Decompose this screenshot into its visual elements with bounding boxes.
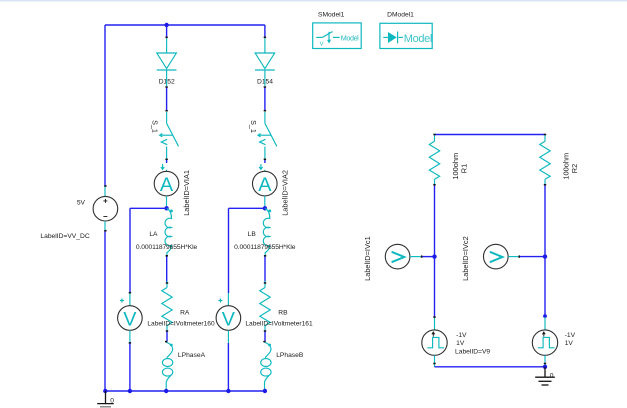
svg-text:-1V: -1V <box>456 332 467 339</box>
svg-text:1V: 1V <box>456 340 465 347</box>
svg-text:LB: LB <box>248 231 257 238</box>
svg-text:Model: Model <box>404 33 432 45</box>
svg-text:S_1: S_1 <box>249 120 258 133</box>
svg-text:S_1: S_1 <box>151 120 160 133</box>
svg-text:0.00011879655H*Kle: 0.00011879655H*Kle <box>234 244 296 251</box>
svg-text:Model: Model <box>341 33 359 42</box>
svg-text:RA: RA <box>180 310 190 317</box>
svg-text:LabelID=IVoltmeter160: LabelID=IVoltmeter160 <box>147 321 215 328</box>
svg-text:1V: 1V <box>565 340 574 347</box>
svg-text:LabelID=IVc1: LabelID=IVc1 <box>363 236 372 281</box>
svg-text:0.00011879655H*Kle: 0.00011879655H*Kle <box>136 244 198 251</box>
svg-text:LabelID=V9: LabelID=V9 <box>455 348 490 355</box>
svg-text:R1: R1 <box>459 164 468 173</box>
svg-text:V: V <box>320 41 324 47</box>
svg-text:RB: RB <box>278 310 288 317</box>
svg-text:LabelID=VIA2: LabelID=VIA2 <box>281 170 290 216</box>
svg-text:LA: LA <box>149 231 158 238</box>
svg-text:LabelID=IVoltmeter161: LabelID=IVoltmeter161 <box>245 321 313 328</box>
svg-text:LabelID=IVc2: LabelID=IVc2 <box>461 236 470 281</box>
svg-text:R2: R2 <box>570 164 579 173</box>
svg-text:5V: 5V <box>77 199 86 206</box>
svg-text:LPhaseB: LPhaseB <box>276 352 304 359</box>
svg-text:0: 0 <box>110 397 114 404</box>
svg-text:0: 0 <box>550 373 554 380</box>
svg-text:LabelID=VIA1: LabelID=VIA1 <box>182 170 191 216</box>
svg-text:LabelID=VV_DC: LabelID=VV_DC <box>40 233 89 240</box>
svg-text:-1V: -1V <box>565 332 576 339</box>
svg-text:DModel1: DModel1 <box>387 11 414 18</box>
svg-text:SModel1: SModel1 <box>318 11 345 18</box>
svg-text:LPhaseA: LPhaseA <box>178 352 206 359</box>
